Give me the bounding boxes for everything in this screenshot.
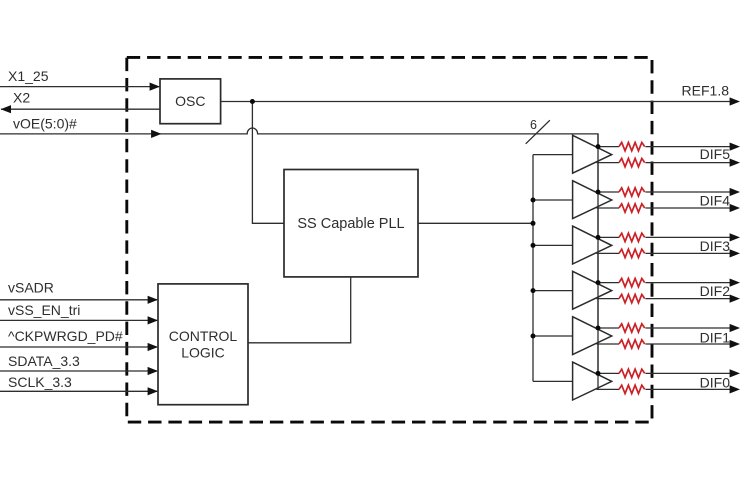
svg-text:DIF2: DIF2 — [700, 283, 731, 299]
svg-text:DIF5: DIF5 — [700, 146, 731, 162]
svg-text:OSC: OSC — [175, 93, 205, 109]
svg-text:^CKPWRGD_PD#: ^CKPWRGD_PD# — [8, 328, 123, 344]
svg-text:X2: X2 — [13, 90, 30, 106]
svg-text:CONTROL: CONTROL — [169, 328, 238, 344]
svg-text:6: 6 — [530, 118, 537, 132]
svg-text:DIF4: DIF4 — [700, 192, 731, 208]
svg-text:X1_25: X1_25 — [8, 68, 49, 84]
svg-text:SCLK_3.3: SCLK_3.3 — [8, 374, 72, 390]
svg-text:DIF3: DIF3 — [700, 238, 731, 254]
svg-text:SDATA_3.3: SDATA_3.3 — [8, 353, 80, 369]
svg-text:SS Capable PLL: SS Capable PLL — [297, 216, 404, 232]
svg-text:LOGIC: LOGIC — [181, 345, 225, 361]
svg-text:vSS_EN_tri: vSS_EN_tri — [8, 302, 80, 318]
svg-text:DIF1: DIF1 — [700, 330, 731, 346]
svg-text:DIF0: DIF0 — [700, 375, 731, 391]
svg-text:REF1.8: REF1.8 — [682, 83, 730, 99]
svg-text:vOE(5:0)#: vOE(5:0)# — [13, 116, 77, 132]
svg-text:vSADR: vSADR — [8, 280, 54, 296]
